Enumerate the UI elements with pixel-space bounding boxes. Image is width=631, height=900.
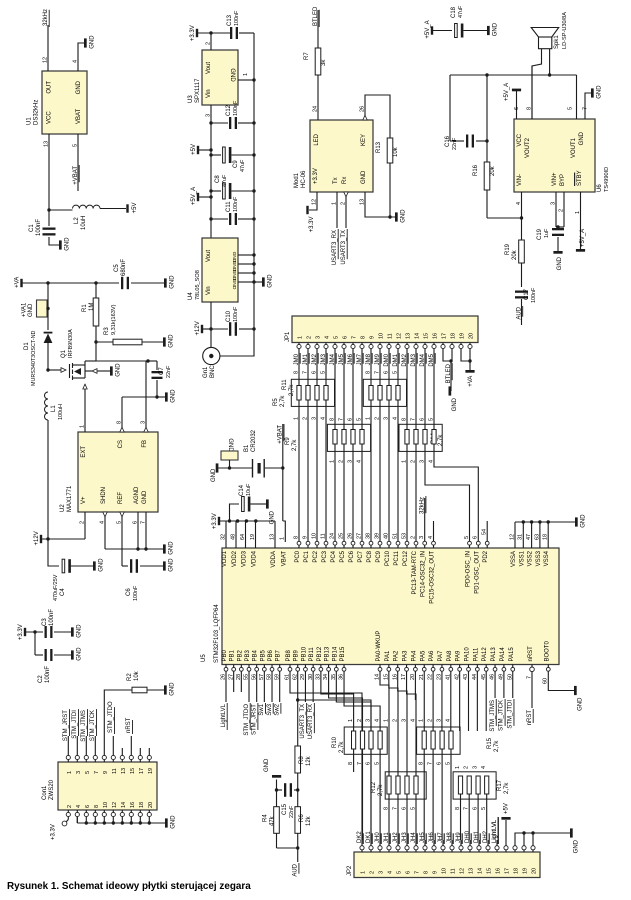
svg-text:PB2: PB2: [237, 649, 243, 661]
ic U6 TS4990ID: [514, 119, 595, 192]
svg-text:PA1: PA1: [385, 650, 391, 662]
svg-text:JP1: JP1: [285, 331, 291, 342]
svg-text:PA10: PA10: [465, 647, 471, 662]
svg-text:ZWS20: ZWS20: [49, 779, 55, 800]
svg-text:BTLED: BTLED: [313, 6, 319, 26]
U5 pin PB4: [255, 667, 259, 671]
net Sw3 at PB6: [271, 671, 273, 702]
svg-text:22nF: 22nF: [289, 805, 295, 818]
Con1 pin 20: [147, 812, 151, 816]
wire speaker right terminal: [549, 49, 551, 75]
svg-text:2: 2: [338, 460, 344, 463]
svg-text:+3.3V: +3.3V: [313, 168, 319, 184]
svg-text:Mod1: Mod1: [294, 172, 300, 188]
svg-text:GND: GND: [142, 490, 148, 504]
svg-text:+5V: +5V: [191, 144, 197, 155]
svg-text:BTLED: BTLED: [446, 363, 452, 383]
svg-text:STM_JTCK: STM_JTCK: [90, 710, 96, 741]
net LightLVL: [496, 840, 498, 846]
svg-text:100nF: 100nF: [49, 609, 55, 626]
svg-text:STM_JTCK: STM_JTCK: [499, 700, 505, 731]
svg-text:VIN+: VIN+: [552, 172, 558, 186]
svg-text:BYP: BYP: [560, 174, 566, 186]
svg-text:PC2: PC2: [313, 550, 319, 562]
net DH2: [487, 840, 489, 846]
ground at U6 pin7: [591, 88, 594, 97]
wire C4 branch: [48, 539, 59, 566]
svg-text:2,7k: 2,7k: [289, 384, 295, 396]
U5 pin VDD3: [245, 521, 247, 548]
svg-text:SPX1117: SPX1117: [195, 78, 201, 103]
svg-text:6: 6: [311, 371, 317, 374]
svg-text:13: 13: [121, 768, 127, 774]
svg-text:12: 12: [311, 199, 317, 205]
connector Gn1 BNC: [203, 347, 220, 364]
svg-text:2: 2: [67, 805, 73, 808]
net DK1: [370, 840, 372, 846]
U5 pin PC9: [378, 541, 382, 545]
svg-text:14: 14: [121, 802, 127, 808]
U5 pin PA10: [467, 667, 471, 671]
svg-text:R6: R6: [299, 814, 305, 822]
svg-text:VOUT2: VOUT2: [525, 137, 531, 158]
svg-text:2: 2: [340, 202, 346, 205]
Con1 pin 12: [111, 812, 115, 816]
svg-text:STM_JTDI: STM_JTDI: [508, 700, 514, 729]
svg-text:STM_JRST: STM_JRST: [251, 704, 257, 735]
svg-text:GND: GND: [579, 131, 585, 145]
svg-text:C15: C15: [282, 803, 288, 815]
svg-text:4: 4: [356, 460, 362, 463]
svg-text:GND: GND: [573, 839, 579, 853]
svg-text:STM_JTMS: STM_JTMS: [490, 700, 496, 732]
U5 pin PA15: [511, 667, 515, 671]
svg-text:4: 4: [99, 521, 105, 524]
svg-text:100nF: 100nF: [531, 287, 537, 303]
svg-text:7: 7: [94, 771, 100, 774]
wire U1 pin5 VBAT: [77, 134, 79, 191]
svg-text:100nF: 100nF: [36, 219, 42, 236]
net JM7: [361, 349, 363, 355]
ic U2 MAX1771: [78, 432, 158, 512]
svg-text:22nF: 22nF: [166, 365, 172, 378]
wire U2 V+ pin2: [84, 512, 86, 539]
net DM0: [388, 349, 390, 355]
wire U3 pin2 Vout: [210, 33, 212, 50]
power +5V_A at C18: [431, 26, 433, 34]
U5 pin PD1-OSC_OUT: [476, 541, 480, 545]
svg-text:54: 54: [482, 529, 488, 535]
battery B1 CR2032: [252, 459, 253, 478]
svg-text:C14: C14: [239, 484, 245, 496]
svg-text:78L05_SO8: 78L05_SO8: [195, 270, 201, 300]
svg-text:USART3_TX: USART3_TX: [300, 704, 306, 739]
net JH5: [424, 840, 426, 846]
svg-text:1: 1: [329, 460, 335, 463]
svg-text:38: 38: [365, 533, 371, 539]
svg-text:2: 2: [205, 42, 211, 45]
net JM2: [316, 349, 318, 355]
svg-text:R7: R7: [304, 52, 310, 60]
svg-text:6: 6: [419, 418, 425, 421]
node junction C1/L2: [47, 208, 50, 211]
svg-text:BOOT0: BOOT0: [544, 640, 550, 661]
svg-text:C10: C10: [226, 310, 232, 322]
svg-text:VDD3: VDD3: [242, 550, 248, 567]
svg-text:18: 18: [514, 868, 520, 874]
wire +VA rail: [22, 282, 120, 284]
connector JP2: [354, 852, 540, 878]
net JH8: [451, 840, 453, 846]
svg-text:Vin: Vin: [206, 286, 212, 295]
svg-text:PC12: PC12: [403, 550, 409, 566]
svg-text:GND: GND: [227, 438, 233, 452]
connector Con1 ZWS20: [58, 762, 157, 810]
svg-text:PA6: PA6: [429, 650, 435, 662]
svg-text:GND: GND: [28, 303, 34, 317]
net JM8: [370, 349, 372, 355]
svg-text:BNC: BNC: [210, 365, 216, 378]
svg-text:3: 3: [419, 536, 425, 539]
svg-text:19: 19: [148, 768, 154, 774]
JP1 pins19-20 to +VA: [461, 349, 470, 361]
svg-text:PB13: PB13: [325, 646, 331, 661]
svg-text:4: 4: [72, 60, 78, 63]
svg-text:12k: 12k: [306, 815, 312, 826]
wire DM2 to PC12: [406, 444, 408, 542]
U5 pin PA4: [414, 667, 418, 671]
svg-text:47uF: 47uF: [458, 5, 464, 18]
svg-text:18: 18: [451, 333, 457, 339]
ground at C7/CS node: [165, 392, 168, 401]
wire DM3 to PC13: [415, 444, 417, 542]
svg-text:10: 10: [379, 333, 385, 339]
svg-text:7: 7: [415, 871, 421, 874]
svg-text:12: 12: [112, 802, 118, 808]
svg-text:64: 64: [240, 534, 246, 540]
svg-text:6: 6: [473, 536, 479, 539]
ground bus SHDN/AGND/GND: [105, 548, 163, 550]
svg-text:Rx: Rx: [342, 177, 348, 184]
net STM_JTMS at PA13: [494, 671, 496, 698]
Con1 pin 3: [75, 755, 79, 759]
svg-text:11: 11: [451, 868, 457, 874]
transistor Q1 IRFB9N30A: [46, 368, 49, 371]
svg-text:C18: C18: [451, 6, 457, 18]
svg-text:REF: REF: [118, 492, 124, 504]
ground at Mod1: [395, 212, 398, 221]
svg-text:PA2: PA2: [394, 650, 400, 662]
svg-text:4: 4: [76, 805, 82, 808]
Con1 pin 19: [147, 755, 151, 759]
svg-text:PC6: PC6: [349, 550, 355, 562]
svg-text:+VBAT: +VBAT: [73, 166, 79, 185]
svg-text:1: 1: [280, 537, 286, 540]
svg-text:GND: GND: [401, 209, 407, 223]
module Mod1 HC-06: [310, 120, 373, 192]
svg-text:STBY: STBY: [577, 170, 583, 186]
svg-text:1: 1: [298, 336, 304, 339]
svg-text:5: 5: [116, 521, 122, 524]
svg-text:10: 10: [442, 868, 448, 874]
wire Q1 source to ground: [85, 370, 92, 372]
svg-text:GND: GND: [452, 397, 458, 411]
svg-text:nRST: nRST: [126, 717, 132, 733]
resistor R6 12k: [297, 790, 299, 807]
svg-text:C3: C3: [42, 618, 48, 626]
svg-text:2: 2: [302, 417, 308, 420]
capacitor C9 47uF polarized: [209, 153, 212, 156]
svg-text:+VBAT: +VBAT: [278, 425, 284, 444]
U5 pin PC2: [315, 541, 319, 545]
svg-text:STM_JTMS: STM_JTMS: [81, 710, 87, 742]
net JH1: [388, 840, 390, 846]
U5 pin PB6: [270, 667, 274, 671]
ground near U1 pin4: [84, 38, 87, 47]
svg-text:PC4: PC4: [331, 550, 337, 562]
svg-text:14: 14: [478, 868, 484, 874]
svg-text:Tx: Tx: [333, 177, 339, 184]
svg-text:100nF: 100nF: [233, 196, 239, 212]
svg-text:1: 1: [67, 771, 73, 774]
wire C1 to ground: [49, 237, 59, 245]
wire U2 EXT pin1: [84, 384, 86, 432]
Con1 pin 11: [111, 755, 115, 759]
svg-text:+5V_A: +5V_A: [191, 187, 197, 205]
U5 pin PB2: [239, 667, 243, 671]
svg-text:2: 2: [370, 871, 376, 874]
svg-text:VDDA: VDDA: [271, 551, 277, 568]
svg-text:+5V_A: +5V_A: [580, 229, 586, 247]
net STM_JTDI: [76, 736, 78, 748]
svg-text:R8: R8: [299, 756, 305, 764]
svg-text:17: 17: [139, 768, 145, 774]
svg-text:R16: R16: [473, 164, 479, 176]
ground below C19: [553, 251, 562, 254]
svg-text:4: 4: [388, 871, 394, 874]
wire DM4 dogleg to PD0: [425, 444, 470, 542]
svg-text:USART3_RX: USART3_RX: [332, 230, 338, 265]
svg-text:R2: R2: [127, 673, 133, 681]
svg-text:C12: C12: [226, 104, 232, 116]
svg-text:KEY: KEY: [361, 134, 367, 146]
svg-text:100nF: 100nF: [45, 666, 51, 683]
svg-text:PA11: PA11: [473, 647, 479, 661]
U5 pin PA5: [422, 667, 426, 671]
svg-text:39: 39: [374, 533, 380, 539]
capacitor C19 1uF: [552, 228, 564, 230]
svg-text:10: 10: [311, 533, 317, 539]
resistor R3 9,31k(163V): [96, 341, 113, 343]
connector JP1: [292, 316, 478, 343]
svg-text:PC3: PC3: [322, 550, 328, 562]
wires U4 GND pins to rail: [238, 254, 254, 256]
wire U1 pin4: [78, 43, 84, 71]
wire U6 VOUT1 pin5: [576, 75, 578, 119]
svg-text:9,31k(163V): 9,31k(163V): [111, 304, 117, 335]
wires into R12 from PA0-PA3: [380, 671, 389, 776]
svg-text:12: 12: [509, 534, 515, 540]
svg-text:6: 6: [406, 871, 412, 874]
svg-text:13: 13: [43, 141, 49, 147]
svg-text:8: 8: [365, 371, 371, 374]
feedback wire VOUT1 node: [450, 74, 577, 76]
svg-text:GND: GND: [77, 624, 83, 638]
svg-text:PC0: PC0: [295, 550, 301, 562]
svg-text:1: 1: [243, 73, 249, 76]
svg-text:19: 19: [460, 333, 466, 339]
svg-text:2,7k: 2,7k: [292, 439, 298, 451]
svg-text:5: 5: [397, 871, 403, 874]
svg-text:16: 16: [496, 868, 502, 874]
svg-text:8: 8: [94, 805, 100, 808]
svg-text:PB3: PB3: [245, 649, 251, 661]
svg-text:15: 15: [487, 868, 493, 874]
net DM5: [433, 349, 435, 355]
resistor pack A JM0-JM3: [291, 379, 334, 406]
U5 pin VDDA: [274, 521, 276, 548]
U5 pin PA2: [396, 667, 400, 671]
Con1 pin 16: [129, 812, 133, 816]
net nRST label: [130, 736, 132, 748]
Con1 pin 18: [138, 812, 142, 816]
U5 pin PA6: [431, 667, 435, 671]
capacitor C15 22nF: [294, 789, 298, 791]
svg-text:Rysunek 1. Schemat ideowy płyt: Rysunek 1. Schemat ideowy płytki sterują…: [7, 881, 251, 892]
svg-text:C11: C11: [226, 201, 232, 212]
svg-text:C7: C7: [159, 367, 165, 375]
svg-text:26: 26: [347, 533, 353, 539]
svg-text:2,7k: 2,7k: [280, 395, 286, 407]
capacitor C2 100nF: [34, 632, 36, 655]
svg-text:PB8: PB8: [286, 649, 292, 661]
capacitor C18 47uF polarized: [455, 24, 458, 38]
svg-text:Vout: Vout: [206, 250, 212, 262]
net DM3: [415, 349, 417, 355]
net JM9: [379, 349, 381, 355]
svg-text:16: 16: [130, 802, 136, 808]
wire PC15 stub: [433, 521, 435, 542]
U5 pin VDD2: [235, 521, 237, 548]
svg-text:7: 7: [338, 418, 344, 421]
Con1 pin 9: [102, 755, 106, 759]
svg-text:GND: GND: [169, 541, 175, 555]
gnd rail right of C13: [253, 33, 255, 329]
capacitor C5 680nF: [121, 277, 123, 289]
svg-text:OUT: OUT: [47, 81, 53, 94]
svg-text:53: 53: [401, 533, 407, 539]
U5 pin PA1: [387, 667, 391, 671]
svg-text:8: 8: [424, 871, 430, 874]
U5 pin PA3: [405, 667, 409, 671]
Con1 pin 4: [75, 812, 79, 816]
JP1 pin18 BTLED: [451, 349, 453, 361]
svg-text:DS32kHz: DS32kHz: [34, 100, 40, 125]
svg-text:GND: GND: [169, 334, 175, 348]
wire U1 pin13 VCC: [48, 134, 50, 210]
net JH4: [415, 840, 417, 846]
inductor L2 10uH: [49, 209, 73, 211]
svg-text:R17: R17: [497, 779, 503, 791]
svg-text:8: 8: [401, 418, 407, 421]
svg-text:VBAT: VBAT: [281, 551, 287, 567]
net JH7: [442, 840, 444, 846]
power +3.3V at Mod1: [306, 206, 308, 214]
svg-text:13: 13: [469, 868, 475, 874]
svg-text:MURS340T3OSCT-ND: MURS340T3OSCT-ND: [31, 330, 37, 386]
Con1 pin 1: [66, 755, 70, 759]
U5 pin PC12: [405, 541, 409, 545]
capacitor C10 100nF: [211, 328, 228, 330]
svg-text:2: 2: [79, 521, 85, 524]
svg-text:Vout: Vout: [206, 62, 212, 74]
diode D1 MURS340T3OSCT-ND: [47, 283, 49, 330]
svg-text:C13: C13: [227, 14, 233, 26]
svg-text:19: 19: [250, 534, 256, 540]
svg-text:100nF: 100nF: [234, 10, 240, 26]
svg-text:D1: D1: [24, 342, 30, 350]
svg-text:17: 17: [442, 333, 448, 339]
svg-text:VCC: VCC: [47, 111, 53, 124]
U5 pin PC4: [333, 541, 337, 545]
svg-text:47: 47: [526, 534, 532, 540]
net JM6: [352, 349, 354, 355]
net STM_JRST: [67, 736, 69, 748]
capacitor C12 100nF: [209, 121, 212, 124]
ground at JP2: [570, 828, 573, 837]
inductor L1 100uH: [45, 392, 48, 420]
ground right of C4: [93, 561, 96, 570]
svg-text:PA0-WKUP: PA0-WKUP: [376, 631, 382, 662]
svg-text:USART3_RX: USART3_RX: [308, 704, 314, 739]
svg-text:PC14-OSC32_IN: PC14-OSC32_IN: [421, 551, 427, 597]
svg-text:PA13: PA13: [491, 647, 497, 662]
U5 pin PA11: [475, 667, 479, 671]
svg-text:PB15: PB15: [340, 646, 346, 661]
svg-text:4: 4: [392, 417, 398, 420]
power +3.3V at U3 out: [196, 29, 198, 37]
U5 pin PA0: [378, 667, 382, 671]
svg-text:C9: C9: [233, 160, 239, 168]
ground left of B1: [216, 463, 219, 472]
net DM2: [406, 349, 408, 355]
U5 pin PB12: [319, 667, 323, 671]
svg-text:LightLVL: LightLVL: [221, 703, 227, 727]
svg-text:STM_JTDO: STM_JTDO: [108, 701, 114, 733]
svg-text:1: 1: [79, 425, 85, 428]
U5 pin PC1: [306, 541, 310, 545]
svg-text:PB14: PB14: [332, 646, 338, 661]
svg-text:L2: L2: [74, 217, 80, 224]
capacitor C4 470uF/25V: [62, 559, 65, 573]
svg-text:2,7k: 2,7k: [438, 434, 444, 446]
svg-text:GND: GND: [65, 237, 71, 251]
svg-text:LED: LED: [314, 133, 320, 145]
svg-text:19: 19: [523, 868, 529, 874]
Con1 pin 14: [120, 812, 124, 816]
net STM_JTDO at PB3: [248, 671, 250, 702]
wire U1 pin12 OUT: [47, 25, 49, 71]
power +VA flag: [20, 279, 22, 287]
power +5V_A flag on rail: [197, 193, 199, 201]
svg-text:PB7: PB7: [276, 649, 282, 661]
U5 pin VDD1: [225, 521, 227, 548]
wire U6 GND pin7: [585, 93, 591, 119]
svg-text:PB4: PB4: [253, 649, 259, 661]
svg-text:7: 7: [582, 107, 588, 110]
svg-text:6: 6: [514, 107, 520, 110]
svg-text:13: 13: [359, 199, 365, 205]
